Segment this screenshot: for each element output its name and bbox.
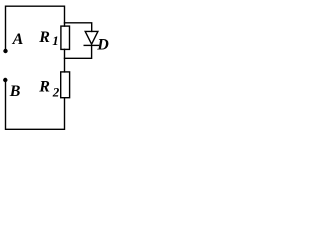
svg-text:1: 1 [52, 33, 59, 48]
svg-text:R: R [38, 79, 50, 96]
svg-text:2: 2 [52, 85, 60, 100]
svg-text:A: A [12, 31, 24, 48]
svg-text:D: D [96, 36, 109, 53]
svg-text:B: B [9, 83, 21, 100]
svg-text:R: R [38, 29, 50, 46]
